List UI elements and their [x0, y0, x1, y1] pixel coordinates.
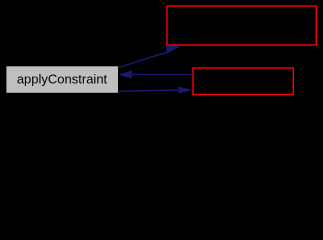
node: top caller (red, truncated): [167, 6, 316, 45]
edge A: applyConstraint -> top box (diagonal): [119, 45, 181, 67]
node: applyConstraint (current function, gray): [6, 66, 119, 94]
svg-text:applyConstraint: applyConstraint: [17, 71, 108, 86]
node: bottom callee (red, truncated): [193, 68, 293, 95]
edge C: applyConstraint -> bottom box (arrow pointing right): [118, 87, 192, 94]
edge B: bottom box -> applyConstraint (arrow pointing left): [118, 70, 192, 78]
